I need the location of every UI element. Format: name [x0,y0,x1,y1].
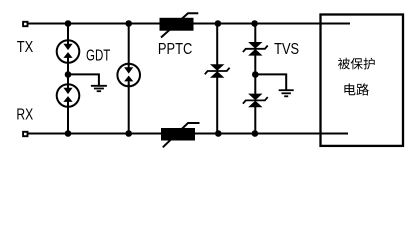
ground G1 [91,86,107,91]
fuse PPTC1 [160,13,199,37]
node TX-D1 junction [215,20,222,27]
terminal RX [23,132,27,136]
text 路 [357,83,369,95]
wire GDT mid link [67,61,69,86]
node TX-GDT junction [65,20,72,27]
node RX-GDT junction [65,130,72,137]
gas discharge tube GDT1b [57,84,80,107]
wire GDT2 branch lower stub [128,84,130,134]
svg-text:TVS: TVS [274,41,299,58]
TVS diode D1 (bidirectional) [205,64,230,78]
text 被 [338,58,350,70]
svg-text:GDT: GDT [86,48,111,65]
terminal TX [23,22,27,26]
svg-text:RX: RX [16,107,33,124]
wire TX line [28,23,350,25]
protected-circuit box U1 [321,15,404,146]
node RX-GDT2 junction [125,130,132,137]
wire TVS D2 branch upper stub [254,24,256,43]
TVS diode D2 (bidirectional) [243,42,268,56]
wire GDT branch lower stub [67,106,69,134]
node TVS center junction [252,71,259,78]
node RX-D1 junction [215,130,222,137]
wire TVS mid link [254,55,256,94]
node TX-GDT2 junction [125,20,132,27]
wire RX line [28,133,348,135]
wire GDT2 branch upper stub [128,24,130,67]
text 保 [351,58,363,70]
text 护 [364,58,375,70]
text 电 [344,83,355,95]
node GDT center junction [65,71,72,78]
node RX-D3 junction [252,130,259,137]
wire TVS ground tap [255,74,286,90]
ground G2 [279,90,294,96]
fuse PPTC2 [161,123,200,147]
gas discharge tube GDT1a [57,40,80,63]
label 被保护电路 (protected circuit) [338,58,375,96]
svg-text:PPTC: PPTC [158,41,192,58]
gas discharge tube GDT2 [117,64,140,87]
svg-text:TX: TX [17,39,34,56]
wire TVS D3 branch lower stub [254,107,256,134]
wire GDT ground tap [68,74,99,86]
node TX-D2 junction [251,20,258,27]
wire GDT branch upper stub [67,24,69,43]
wire TVS D1 branch lower stub [216,77,218,133]
TVS diode D3 (bidirectional) [243,94,268,108]
wire TVS D1 branch upper stub [216,24,218,65]
